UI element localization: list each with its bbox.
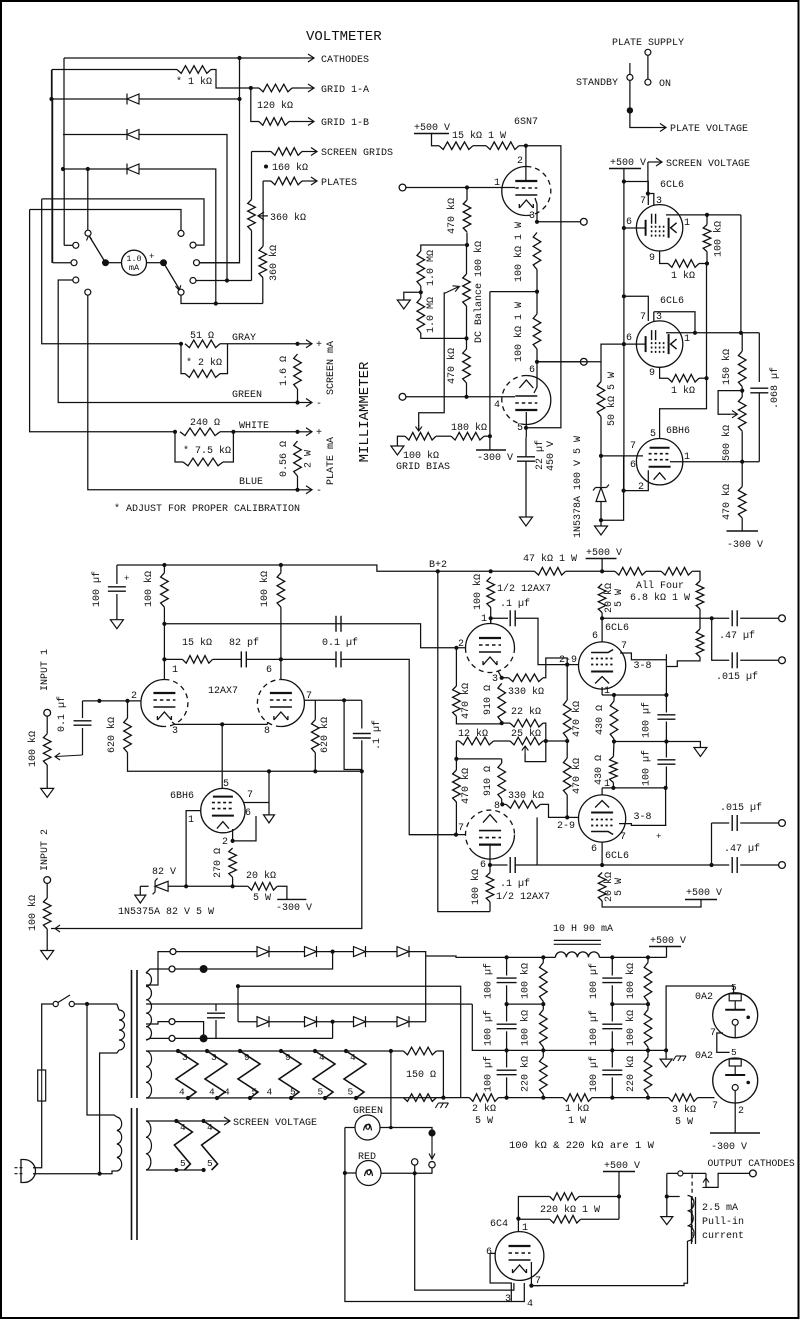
svg-text:470 kΩ: 470 kΩ: [571, 701, 583, 737]
junction: [236, 984, 240, 988]
resistor 20k 5W u: [598, 584, 606, 613]
resistor 910 u: [498, 683, 506, 721]
contact: [85, 230, 91, 236]
wire: [712, 618, 730, 660]
svg-text:470 kΩ: 470 kΩ: [446, 348, 458, 384]
svg-text:-300 V: -300 V: [711, 1142, 747, 1153]
fuse: [38, 1070, 46, 1101]
pot wiper: [55, 753, 83, 760]
wire: [602, 617, 712, 619]
svg-text:470 kΩ: 470 kΩ: [460, 768, 472, 804]
pot wiper: [522, 746, 529, 753]
junction: [86, 167, 90, 171]
wire: [289, 121, 300, 123]
wire: [618, 1172, 620, 1220]
svg-text:5: 5: [290, 1087, 296, 1098]
wire: [619, 824, 666, 826]
wire: [647, 1047, 649, 1057]
svg-text:82 pf: 82 pf: [229, 637, 259, 649]
svg-text:100 kΩ: 100 kΩ: [143, 571, 155, 607]
resistor 1k: [668, 260, 699, 268]
svg-text:50 kΩ 5 W: 50 kΩ 5 W: [606, 372, 618, 426]
wire: [421, 333, 467, 338]
wire: [515, 618, 567, 664]
svg-text:Pull-in: Pull-in: [702, 1216, 744, 1228]
wire: [566, 665, 568, 700]
svg-text:22 µf: 22 µf: [534, 440, 546, 470]
wire: [647, 162, 649, 194]
junction: [565, 739, 569, 743]
svg-text:3-8: 3-8: [634, 812, 652, 823]
svg-text:+500 V: +500 V: [610, 158, 646, 169]
wire: [461, 1097, 469, 1099]
wire: [665, 722, 667, 742]
svg-text:3-8: 3-8: [634, 661, 652, 672]
wire: [699, 609, 701, 618]
wire: [341, 659, 456, 834]
svg-text:3: 3: [505, 1294, 511, 1305]
junction: [664, 786, 668, 790]
wire: [53, 262, 71, 264]
wire: [317, 1021, 354, 1023]
wire: [614, 742, 700, 748]
meter 1.0mA: [122, 250, 147, 275]
capacitor 0.1uf in: [74, 721, 92, 725]
wire: [269, 1021, 305, 1023]
resistor 20k 5W l: [598, 873, 606, 902]
junction: [705, 213, 709, 217]
svg-text:220 kΩ 1 W: 220 kΩ 1 W: [540, 1204, 600, 1216]
resistor 1.0M b: [417, 298, 425, 333]
wire: [251, 88, 259, 122]
supply bar: [609, 168, 641, 170]
junction: [184, 884, 188, 888]
svg-text:100 kΩ: 100 kΩ: [259, 571, 271, 607]
wire: [490, 1253, 511, 1301]
svg-text:450 V: 450 V: [546, 441, 557, 471]
wire: [390, 1051, 392, 1128]
wire: [536, 270, 538, 292]
resistor 100k f1: [540, 963, 548, 1002]
wire: [602, 900, 701, 908]
terminal: [169, 1035, 175, 1041]
svg-text:7: 7: [621, 641, 627, 652]
resistor 1.6: [294, 354, 302, 389]
svg-text:6CL6: 6CL6: [605, 851, 629, 862]
junction: [436, 569, 440, 573]
contact: [69, 1001, 74, 1006]
wire: [758, 333, 760, 382]
svg-text:2: 2: [517, 156, 523, 167]
svg-text:100 kΩ: 100 kΩ: [713, 221, 725, 257]
wire: [540, 804, 567, 817]
wire: [623, 169, 625, 491]
svg-text:5: 5: [252, 1087, 258, 1098]
heater 9: [279, 1051, 301, 1098]
svg-text:240 Ω: 240 Ω: [190, 418, 220, 429]
wire: [52, 98, 240, 100]
wire: [581, 1218, 619, 1220]
capacitor doubler: [207, 1013, 225, 1018]
wire: [536, 817, 538, 865]
wire: [176, 968, 204, 970]
wire: [579, 1196, 619, 1198]
svg-text:-300 V: -300 V: [477, 453, 513, 464]
junction: [535, 220, 539, 224]
svg-text:2: 2: [638, 482, 644, 493]
svg-text:6: 6: [626, 333, 632, 344]
capacitor .015uf u: [732, 652, 737, 668]
svg-text:5 W: 5 W: [253, 893, 271, 904]
resistor 150 a: [403, 1047, 436, 1055]
resistor SCREENGRIDS: [271, 148, 302, 156]
wire: [624, 470, 649, 490]
wire: [601, 456, 624, 520]
heater 4: [313, 1051, 335, 1098]
svg-text:1N5375A 82 V 5 W: 1N5375A 82 V 5 W: [118, 907, 214, 918]
svg-text:100 kΩ 1 W: 100 kΩ 1 W: [513, 302, 525, 362]
junction: [125, 699, 129, 703]
wire: [666, 947, 668, 958]
junction: [535, 290, 539, 294]
ground: [520, 517, 533, 526]
capacitor 0.1uf a: [336, 616, 341, 632]
wire: [146, 952, 170, 973]
svg-text:1N5378A 100 V 5 W: 1N5378A 100 V 5 W: [573, 436, 584, 538]
junction: [289, 1096, 293, 1100]
junction: [248, 1096, 252, 1100]
svg-text:2: 2: [222, 837, 228, 848]
wire: [612, 1003, 648, 1005]
svg-text:470 kΩ: 470 kΩ: [721, 484, 733, 520]
junction: [693, 331, 697, 335]
svg-text:12AX7: 12AX7: [208, 686, 238, 697]
wire: [712, 822, 730, 824]
svg-text:6: 6: [245, 808, 251, 819]
wire: [46, 929, 48, 951]
wire: [612, 1049, 648, 1051]
wire: [380, 1127, 391, 1129]
resistor 25k pot: [510, 737, 543, 745]
contact: [627, 74, 633, 80]
junction: [710, 616, 714, 620]
wire: [602, 787, 666, 789]
svg-text:* 7.5 kΩ: * 7.5 kΩ: [183, 445, 231, 457]
junction: [454, 833, 458, 837]
wire: [624, 182, 648, 206]
svg-text:100 kΩ: 100 kΩ: [27, 731, 39, 767]
svg-text:+: +: [316, 428, 322, 439]
svg-text:-300 V: -300 V: [727, 540, 763, 551]
resistor 47k: [535, 568, 566, 576]
wire: [83, 700, 142, 702]
svg-text:-300 V: -300 V: [276, 903, 312, 914]
wire: [345, 1128, 524, 1302]
transformer T1 core: [132, 970, 138, 1098]
transformer T1 heater: [146, 1051, 152, 1098]
svg-text:47 kΩ 1 W: 47 kΩ 1 W: [523, 553, 577, 565]
capacitor .068uf: [750, 388, 768, 393]
resistor 22k: [510, 719, 543, 727]
junction: [740, 389, 744, 393]
resistor 470k c: [738, 487, 746, 518]
wire: [566, 795, 568, 817]
resistor 220k b: [550, 1215, 581, 1223]
svg-text:100 µf: 100 µf: [588, 963, 600, 999]
svg-text:360 kΩ: 360 kΩ: [270, 212, 306, 224]
wire: [82, 728, 84, 755]
ground: [110, 620, 123, 629]
wire: [87, 1003, 117, 1005]
wire: [146, 1038, 169, 1040]
terminal: [44, 877, 51, 884]
svg-text:8: 8: [264, 726, 270, 737]
junction: [610, 955, 614, 959]
ground: [41, 788, 54, 797]
ground: [397, 300, 410, 309]
svg-text:.1 µf: .1 µf: [500, 878, 530, 890]
junction: [360, 769, 364, 773]
junction: [599, 518, 603, 522]
junction: [565, 815, 569, 819]
junction: [464, 336, 468, 340]
resistor 220k a: [550, 1193, 579, 1201]
wire: [517, 1219, 519, 1246]
switch blade: [629, 63, 631, 74]
junction: [488, 863, 492, 867]
contact: [71, 260, 77, 266]
tube 6C4: [495, 1232, 544, 1281]
wire: [654, 312, 695, 333]
junction: [541, 1002, 545, 1006]
wire: [599, 956, 666, 958]
wire: [146, 1003, 461, 1005]
wire: [361, 700, 363, 728]
capacitor 100uf u: [657, 715, 675, 719]
svg-text:PLATE VOLTAGE: PLATE VOLTAGE: [670, 124, 748, 135]
wire: [466, 306, 468, 349]
capacitor .47uf l: [732, 857, 737, 873]
junction: [600, 863, 604, 867]
resistor 360k: [259, 247, 267, 278]
wire: [525, 412, 527, 437]
ground: [661, 1217, 673, 1225]
terminal: [44, 709, 51, 716]
junction: [354, 1096, 358, 1100]
wire: [741, 431, 743, 462]
resistor 330k l: [506, 801, 540, 809]
wire: [436, 1051, 443, 1098]
resistor 6.8k d: [696, 629, 704, 657]
arrow: [298, 486, 312, 494]
wire: [612, 783, 614, 788]
wire: [489, 845, 491, 865]
wire: [490, 864, 508, 866]
wire: [473, 145, 486, 147]
wire: [175, 432, 183, 462]
svg-text:6SN7: 6SN7: [514, 117, 538, 128]
wire: [519, 146, 561, 428]
choke 10H: [554, 940, 601, 944]
wire: [537, 344, 624, 362]
svg-text:+500 V: +500 V: [650, 936, 686, 947]
tube 6CL6 1: [636, 205, 682, 251]
wire: [42, 199, 181, 344]
wire: [82, 701, 84, 718]
wire: [74, 1003, 87, 1005]
relay core: [692, 1197, 696, 1244]
resistor DC balance pot: [463, 274, 471, 306]
wire: [506, 1077, 508, 1097]
wire: [666, 986, 734, 1050]
resistor 20k 5W: [248, 883, 277, 891]
svg-text:3 kΩ: 3 kΩ: [672, 1104, 696, 1116]
contact: [645, 49, 651, 55]
wire: [52, 69, 177, 71]
wire: [692, 571, 700, 581]
svg-text:PLATES: PLATES: [321, 178, 357, 189]
capacitor 100uf: [108, 587, 126, 591]
junction: [740, 460, 744, 464]
wire: [489, 865, 491, 873]
wire: [525, 741, 546, 762]
junction: [622, 342, 626, 346]
svg-text:100 kΩ: 100 kΩ: [520, 1010, 532, 1046]
svg-text:620 kΩ: 620 kΩ: [106, 717, 118, 753]
junction: [664, 739, 668, 743]
wire: [706, 215, 708, 225]
wire: [507, 1003, 544, 1005]
resistor 3k 5W: [668, 1094, 697, 1102]
transformer T2 heater: [146, 1121, 151, 1170]
wire: [262, 278, 264, 304]
wire: [240, 951, 257, 953]
wire: [484, 435, 490, 437]
capacitor 100uf l: [657, 760, 675, 764]
svg-text:7: 7: [712, 1101, 718, 1112]
capacitor 100uf f1: [602, 978, 622, 983]
wire: [665, 788, 667, 826]
junction: [313, 1049, 317, 1053]
junction: [664, 693, 668, 697]
junction: [313, 769, 317, 773]
svg-text:100 µf: 100 µf: [482, 963, 494, 999]
wire: [602, 694, 666, 696]
wire: [51, 740, 362, 928]
svg-text:.47 µf: .47 µf: [719, 630, 755, 642]
junction: [200, 1034, 208, 1042]
wire: [670, 461, 759, 463]
heater 3: [176, 1051, 198, 1098]
svg-text:PLATE mA: PLATE mA: [326, 437, 337, 485]
pot wiper: [51, 925, 60, 932]
wire: [64, 57, 300, 59]
svg-text:1: 1: [172, 665, 178, 676]
diode D10: [257, 946, 269, 957]
svg-text:GRID 1-B: GRID 1-B: [321, 118, 369, 129]
junction: [622, 226, 626, 230]
svg-text:3: 3: [492, 674, 498, 685]
resistor 360k pot: [248, 200, 256, 231]
wire: [741, 518, 743, 531]
wire: [456, 716, 501, 724]
junction: [214, 301, 218, 305]
wire: [646, 570, 661, 572]
wire: [592, 1097, 668, 1099]
wire: [251, 231, 253, 281]
wire: [699, 377, 707, 379]
svg-text:OUTPUT CATHODES: OUTPUT CATHODES: [708, 1158, 795, 1169]
svg-text:15 kΩ: 15 kΩ: [182, 637, 212, 649]
contact: [190, 278, 196, 284]
wire: [542, 1002, 544, 1010]
wire: [455, 802, 457, 835]
wire: [490, 291, 537, 293]
resistor 2k 5W: [469, 1094, 498, 1102]
svg-text:5: 5: [731, 1047, 737, 1058]
svg-text:270 Ω: 270 Ω: [213, 848, 224, 878]
wire: [181, 344, 185, 374]
contact: [645, 79, 651, 85]
capacitor 22uf: [517, 457, 535, 461]
svg-text:1/2 12AX7: 1/2 12AX7: [497, 583, 551, 595]
chassis squiggle: [673, 1056, 686, 1061]
svg-text:PLATE SUPPLY: PLATE SUPPLY: [612, 38, 684, 49]
wire: [238, 1021, 257, 1023]
wire: [536, 292, 538, 314]
wire: [506, 1031, 508, 1067]
heater 3: [205, 1051, 227, 1098]
wire: [542, 957, 544, 962]
svg-text:2-9: 2-9: [557, 821, 575, 832]
svg-text:GREEN: GREEN: [232, 390, 262, 401]
resistor 1k 1W: [563, 1094, 592, 1102]
junction: [186, 1096, 190, 1100]
arrow: [303, 148, 317, 156]
junction: [389, 1126, 393, 1130]
svg-text:4: 4: [207, 1122, 213, 1133]
junction: [612, 739, 616, 743]
svg-text:100 kΩ & 220 kΩ are 1 W: 100 kΩ & 220 kΩ are 1 W: [509, 1140, 655, 1152]
resistor 620k b: [312, 720, 320, 753]
junction: [612, 693, 616, 697]
wire: [699, 263, 707, 265]
capacitor 0.1uf b: [336, 651, 341, 667]
svg-text:4: 4: [319, 1052, 325, 1063]
junction: [102, 259, 109, 266]
junction: [627, 107, 633, 113]
wire: [456, 758, 501, 760]
resistor 270: [229, 848, 237, 877]
relay actuator: [691, 1174, 693, 1242]
wire: [665, 1050, 667, 1059]
diode D1: [127, 94, 139, 105]
wire: [666, 1173, 668, 1216]
junction: [61, 167, 65, 171]
wire: [421, 245, 467, 251]
resistor 100k l: [486, 873, 494, 902]
junction: [49, 97, 53, 101]
wire: [491, 617, 508, 619]
wire: [146, 1022, 169, 1024]
svg-text:9: 9: [649, 253, 655, 264]
wire: [665, 767, 667, 788]
junction: [342, 698, 346, 702]
wire: [455, 741, 457, 759]
junction: [331, 1020, 335, 1024]
svg-text:20 kΩ: 20 kΩ: [246, 870, 276, 882]
power plug: [21, 1160, 36, 1183]
